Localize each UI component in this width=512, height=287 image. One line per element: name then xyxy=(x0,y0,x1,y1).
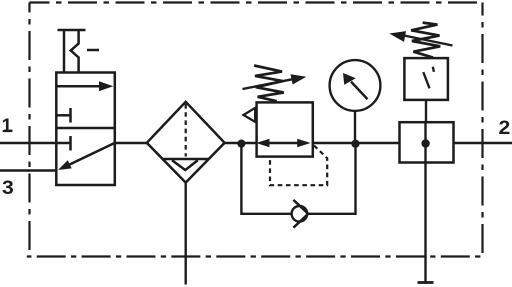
exhaust end bar xyxy=(418,281,434,284)
node label 1 xyxy=(2,116,13,137)
switch-on valve V2 adjustment arrow xyxy=(389,31,452,45)
check valve CV1 circle xyxy=(292,206,308,222)
wire filter to regulator xyxy=(225,142,257,144)
valve V1 bottom-position exhaust arrow 2->3 xyxy=(58,143,115,170)
wire port3 line xyxy=(0,169,58,171)
svg-text:3: 3 xyxy=(2,178,14,199)
gauge G1 circle xyxy=(330,60,381,111)
switch-on valve V2 inner marks xyxy=(423,67,434,89)
valve V1 top-position flow arrow xyxy=(58,81,114,91)
check valve CV1 seat chevron xyxy=(293,200,308,228)
filter F1 separator bowl line xyxy=(162,158,209,161)
svg-text:2: 2 xyxy=(499,118,511,139)
filter F1 element dashed centerline xyxy=(185,104,187,157)
wire gauge stem xyxy=(354,111,356,144)
node junction dot B gauge tap xyxy=(351,140,359,148)
switch-on valve V2 pilot box xyxy=(404,58,448,100)
node junction dot A xyxy=(237,140,245,148)
regulator R1 adjustment spring xyxy=(254,66,284,102)
wire port1 line xyxy=(0,142,56,144)
wire bypass branch down-left xyxy=(241,144,291,214)
wire pilot box to main box xyxy=(425,100,427,122)
wire vertical through main box to exhaust xyxy=(424,122,426,281)
node junction dot C xyxy=(421,139,429,147)
regulator R1 body xyxy=(257,102,313,156)
enclosure dash-dot frame xyxy=(27,3,483,257)
valve V1 bottom-position blocked port T xyxy=(58,136,71,151)
regulator R1 relief triangle xyxy=(244,108,256,122)
regulator R1 adjustment arrow xyxy=(243,74,307,89)
wire bypass branch right-up xyxy=(308,144,355,214)
regulator R1 flow double arrow xyxy=(256,139,311,148)
switch-on valve V2 spring xyxy=(411,23,440,58)
gauge G1 needle xyxy=(343,73,368,99)
wire valve to filter xyxy=(115,142,147,144)
filter F1 separator vortex chevron xyxy=(172,160,198,170)
valve V1 manual detent actuator xyxy=(58,30,100,73)
wire port2 line xyxy=(454,142,512,144)
valve V1 body boxes xyxy=(56,73,115,186)
filter F1 diamond xyxy=(147,102,225,183)
svg-text:1: 1 xyxy=(2,116,13,137)
filter F1 drain line xyxy=(184,183,186,285)
valve V1 top-position blocked port T xyxy=(58,108,71,123)
wire regulator to right valve xyxy=(313,142,400,144)
regulator R1 pilot dashed line xyxy=(270,146,327,186)
switch-on valve V2 main box xyxy=(400,122,454,162)
